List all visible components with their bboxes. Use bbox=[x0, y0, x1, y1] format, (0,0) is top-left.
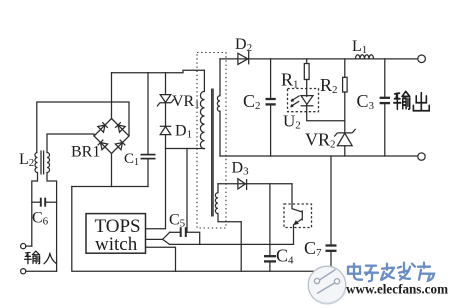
wire: C5 right lead down to source rail bbox=[187, 232, 200, 244]
wire: R1 to LED bbox=[306, 80, 308, 97]
diode D3 bbox=[218, 179, 292, 190]
wire: L2 left bottom lead bbox=[32, 173, 38, 247]
optocoupler U2 LED dashed box bbox=[288, 89, 319, 112]
capacitor C7 bbox=[326, 246, 337, 251]
wire: clamp column down to TOPSwitch pin A bbox=[146, 135, 166, 229]
bridge rectifier BR1 bbox=[94, 119, 129, 154]
wire: input line from L2 left winding up and across to BR1 right vertex bbox=[37, 102, 129, 153]
wire: bias return to bottom rail bbox=[240, 222, 242, 271]
common-mode choke L2 bbox=[35, 151, 50, 175]
label TOPSwitch bbox=[95, 216, 141, 255]
transformer primary winding bbox=[200, 70, 204, 149]
wire: VR2 to ground rail bbox=[344, 146, 346, 156]
svg-text:BR1: BR1 bbox=[71, 144, 100, 161]
capacitor C6 bbox=[32, 198, 57, 207]
wire: left ground loop down and bottom rail bbox=[72, 187, 331, 272]
wire: input line from L2 right winding to BR1 left vertex bbox=[47, 134, 94, 153]
inductor L1 bbox=[356, 55, 374, 59]
svg-text:D2: D2 bbox=[235, 36, 252, 54]
optocoupler U2 phototransistor dashed box bbox=[284, 204, 312, 228]
svg-text:L2: L2 bbox=[19, 151, 34, 169]
wire: diagonal to C5 bbox=[163, 232, 170, 244]
wire: C1 branch upper bbox=[147, 73, 149, 154]
svg-text:U2: U2 bbox=[283, 112, 301, 132]
wire: TOPSwitch control pin stubs bbox=[146, 238, 163, 240]
watermark logo disc bbox=[308, 266, 346, 304]
svg-text:R1: R1 bbox=[281, 70, 299, 91]
transformer secondary 1 winding bbox=[217, 59, 220, 156]
wire: C1 branch lower bbox=[147, 159, 149, 186]
optocoupler U2 LED bbox=[291, 96, 314, 107]
resistor R1 bbox=[304, 64, 309, 80]
output terminal top bbox=[418, 55, 426, 63]
svg-text:R2: R2 bbox=[320, 75, 338, 96]
output terminal bottom bbox=[418, 153, 425, 160]
wire: drain node horizontal to primary bottom bbox=[166, 148, 205, 150]
wire: L2 right bottom lead bbox=[47, 173, 57, 272]
wire: C5 left lead bbox=[170, 231, 180, 233]
wire: LED bottom to VR2 node bbox=[307, 105, 345, 121]
capacitor C5 bbox=[181, 227, 186, 237]
wire: clamp branch from rail to VR1 bbox=[165, 73, 167, 95]
wire: top-left DC+ rail bbox=[112, 70, 205, 73]
capacitor C2 bbox=[266, 99, 276, 104]
svg-text:C6: C6 bbox=[32, 210, 49, 228]
input terminal top bbox=[21, 244, 32, 249]
svg-text:D1: D1 bbox=[175, 123, 192, 141]
input terminal bottom bbox=[21, 269, 57, 274]
svg-text:witch: witch bbox=[95, 234, 138, 255]
wire: C3 branch bbox=[384, 59, 386, 156]
svg-text:VR1: VR1 bbox=[172, 93, 200, 111]
transformer core bbox=[212, 89, 213, 217]
svg-text:C5: C5 bbox=[169, 212, 186, 230]
wire: between VR1 and D1 bbox=[165, 103, 167, 126]
wire: control/source rail bbox=[170, 243, 294, 245]
wire: BR1 top lead bbox=[111, 73, 113, 119]
capacitor C1 bbox=[141, 155, 156, 159]
transformer secondary 2 (bias) winding bbox=[215, 184, 241, 222]
label 输出 (output) bbox=[394, 91, 429, 110]
wire: C2 branch bbox=[270, 59, 272, 156]
transformer dashed box bbox=[197, 53, 226, 229]
wire: BR1 bottom lead bbox=[111, 154, 113, 187]
wire: R2 to VR2 bbox=[344, 92, 346, 133]
zener VR1 bbox=[157, 95, 174, 107]
TOPSwitch U1 box bbox=[86, 214, 146, 254]
svg-text:C3: C3 bbox=[357, 91, 375, 112]
svg-text:C1: C1 bbox=[124, 151, 139, 168]
diode D2 bbox=[238, 51, 249, 65]
watermark text 电子发烧友 bbox=[348, 263, 434, 282]
svg-text:C2: C2 bbox=[243, 91, 261, 112]
capacitor C3 bbox=[380, 98, 390, 103]
wire: secondary output rail through D2 bbox=[220, 58, 417, 60]
label 输入 (input) bbox=[25, 251, 57, 264]
wire: C7 branch from ground rail down bbox=[330, 156, 332, 271]
wire: R2 branch top bbox=[344, 59, 346, 77]
wire: R1 branch top bbox=[306, 59, 308, 64]
wire: primary negative rail (BR1-/C1-) bbox=[72, 186, 148, 188]
capacitor C4 bbox=[264, 256, 276, 261]
phototransistor bbox=[292, 184, 302, 245]
wire: C4 branch from D3 line down bbox=[269, 184, 271, 271]
zener VR2 bbox=[334, 129, 355, 146]
wire: output ground rail bbox=[220, 155, 418, 157]
svg-text:D3: D3 bbox=[232, 160, 250, 178]
svg-text:C4: C4 bbox=[276, 246, 294, 267]
resistor R2 bbox=[343, 77, 348, 92]
svg-text:C7: C7 bbox=[304, 238, 322, 259]
svg-text:L1: L1 bbox=[352, 38, 367, 56]
diode D1 bbox=[160, 126, 171, 134]
svg-text:VR2: VR2 bbox=[305, 130, 336, 151]
svg-text:www.elecfans.com: www.elecfans.com bbox=[346, 282, 449, 297]
wire: drain drop to C5 line bbox=[186, 149, 188, 233]
wire: TOPSwitch source stub to bottom rail bbox=[146, 247, 176, 271]
